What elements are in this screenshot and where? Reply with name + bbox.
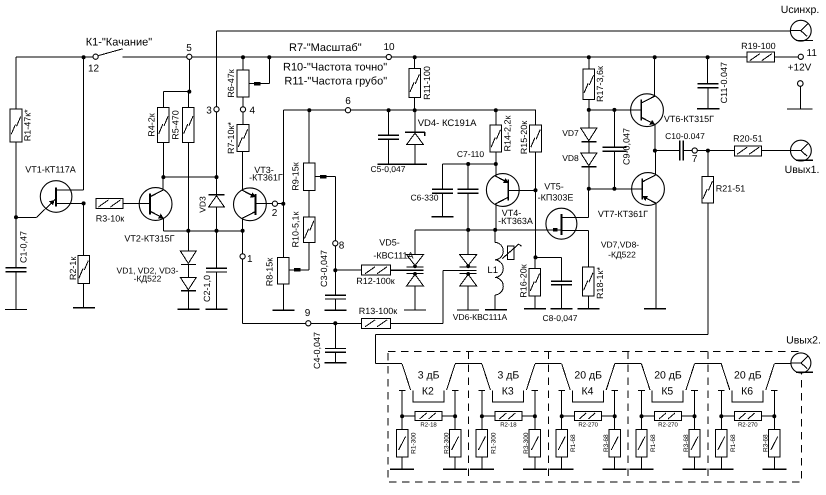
svg-text:4: 4 — [250, 105, 256, 116]
svg-text:R2-270: R2-270 — [658, 422, 678, 429]
ground VT7 — [644, 308, 666, 310]
label VD7 VD8 — [601, 240, 639, 260]
svg-text:R1-68: R1-68 — [730, 434, 737, 452]
wire emitter rail to C2 — [216, 231, 218, 268]
svg-text:VD6-КВС111А: VD6-КВС111А — [453, 312, 508, 322]
svg-text:R15-20к: R15-20к — [519, 121, 529, 155]
transistor VT5 (КП303Е FET) — [538, 182, 589, 240]
wire VT7 emitter down — [655, 203, 657, 309]
svg-text:3 дБ: 3 дБ — [498, 369, 520, 381]
svg-text:R1-300: R1-300 — [490, 432, 497, 454]
node 6 — [345, 96, 351, 113]
resistor R11 — [409, 55, 432, 110]
wire +12V bus (node 5 to node 11) — [16, 56, 798, 58]
wire node8 to C3 — [333, 246, 337, 295]
resistor R13 — [359, 306, 398, 329]
resistor R2-18 of К2 — [400, 412, 457, 429]
svg-text:L1: L1 — [487, 265, 498, 276]
svg-text:2: 2 — [272, 208, 278, 219]
capacitor C5 — [371, 110, 406, 174]
wire node9 to R13 — [311, 321, 362, 325]
resistor R1-68 of К5 — [636, 416, 657, 469]
wire into relay К5 — [615, 362, 642, 364]
svg-text:-КВС111А: -КВС111А — [373, 250, 413, 260]
wire VT6 collector up — [653, 55, 657, 96]
wire R8 wiper — [289, 268, 309, 271]
svg-text:R11-100: R11-100 — [422, 66, 432, 100]
resistor R18 — [583, 267, 606, 299]
wire R21 down and left — [376, 203, 708, 334]
label VD1 VD2 VD3 — [117, 265, 179, 283]
resistor R1 — [10, 57, 33, 142]
ground R1-300 К3 — [470, 468, 494, 470]
svg-text:9: 9 — [305, 308, 311, 319]
svg-text:VT7-КТ361Г: VT7-КТ361Г — [598, 209, 648, 219]
relay contact К6 — [718, 364, 778, 416]
svg-text:R1-68: R1-68 — [570, 434, 577, 452]
diode VD2 — [180, 264, 196, 291]
connector Uвых1 — [785, 140, 820, 176]
wire VT3 base to node 2 — [256, 201, 286, 219]
wire node5 down to R4/R5 — [163, 59, 191, 93]
capacitor C8 — [543, 281, 578, 323]
ground C5 VD4 — [377, 163, 427, 165]
wire node 1 down to node 9 rail — [243, 259, 306, 323]
capacitor C2 — [202, 268, 227, 309]
svg-text:R1-300: R1-300 — [411, 432, 418, 454]
ground VD6 — [457, 309, 479, 311]
transistor VT2 (КТ315Г) — [124, 188, 174, 244]
svg-text:R2-18: R2-18 — [500, 422, 517, 429]
ground C8 — [550, 308, 572, 310]
wire R18 to ground — [587, 296, 589, 309]
wire varicap rail — [415, 228, 562, 232]
ground C6 — [431, 216, 453, 218]
svg-text:3 дБ: 3 дБ — [418, 369, 440, 381]
svg-text:R10-5,1к: R10-5,1к — [291, 211, 301, 247]
wire VT5 source down to R18 — [587, 230, 589, 267]
capacitor C9 — [602, 110, 631, 189]
svg-text:R12-100к: R12-100к — [356, 276, 395, 286]
svg-text:R11-"Частота грубо": R11-"Частота грубо" — [284, 76, 387, 88]
wire R10 to R8 wiper — [308, 242, 310, 270]
svg-text:VT6-КТ315Г: VT6-КТ315Г — [664, 114, 714, 124]
wire R9 wiper — [315, 175, 335, 241]
svg-text:R4-2к: R4-2к — [147, 113, 157, 137]
wire collector line (R4 bottom to VD3 column) — [161, 175, 218, 179]
svg-text:R20-51: R20-51 — [733, 134, 763, 144]
transistor VT1 (КТ117А unijunction) — [16, 165, 84, 218]
relay contact К4 — [558, 364, 618, 416]
wire VD8 down — [588, 167, 590, 189]
varicap VD6 — [443, 230, 477, 310]
transistor VT4 (КТ363А) — [486, 174, 532, 226]
wire R6 to R7 (node 4) — [240, 97, 255, 124]
svg-text:R3-68: R3-68 — [683, 434, 690, 452]
svg-text:-КП303Е: -КП303Е — [538, 193, 574, 203]
svg-text:VD7: VD7 — [562, 128, 579, 138]
relay contact К2 — [399, 364, 459, 416]
node 11 — [798, 48, 817, 59]
transistor VT3 (КТ361Г) — [234, 165, 283, 221]
node 10 — [383, 42, 395, 60]
resistor R5 — [171, 92, 194, 143]
wire into relay К4 — [535, 362, 562, 364]
resistor R3-300 of К2 — [443, 416, 460, 469]
potentiometer R6 — [226, 55, 249, 98]
wire attenuator input — [376, 334, 403, 363]
svg-text:К2: К2 — [422, 386, 434, 398]
wire VT1 base1 down to R2 — [82, 201, 86, 255]
ground R3-68 К6 — [762, 468, 786, 470]
ground diode chain — [177, 308, 199, 310]
svg-text:R21-51: R21-51 — [716, 183, 746, 193]
svg-text:R1-47к*: R1-47к* — [23, 109, 33, 141]
ground R1-300 К2 — [390, 468, 414, 470]
svg-text:C9-0,047: C9-0,047 — [622, 128, 632, 165]
ground C11 — [697, 108, 719, 110]
wire VT4 collector down — [495, 204, 497, 230]
ground R3-300 К2 — [443, 468, 467, 470]
svg-text:R8-15к: R8-15к — [265, 258, 275, 287]
label R10 частота точно — [283, 62, 387, 74]
wire VT6 emitter down — [653, 124, 657, 152]
ground R3-300 К3 — [523, 468, 547, 470]
ground L1 — [485, 309, 507, 311]
ground R1-68 К4 — [550, 468, 574, 470]
label +12V — [788, 63, 812, 74]
wire emitter rail — [164, 229, 245, 233]
svg-text:VD7,VD8-: VD7,VD8- — [601, 240, 639, 250]
switch K1 contact (node 12) — [88, 54, 100, 74]
ground R1-68 К6 — [709, 468, 733, 470]
diode VD7 — [562, 110, 597, 142]
svg-text:C6-330: C6-330 — [411, 192, 439, 202]
ground R18 — [577, 308, 599, 310]
svg-text:C7-110: C7-110 — [457, 149, 485, 159]
svg-text:10: 10 — [383, 42, 395, 53]
svg-text:C4-0,047: C4-0,047 — [312, 332, 322, 369]
svg-text:VD5-: VD5- — [379, 237, 400, 247]
svg-text:12: 12 — [88, 64, 100, 75]
resistor R17 — [583, 55, 605, 110]
svg-text:VD3: VD3 — [198, 196, 208, 213]
resistor R16 — [519, 257, 541, 308]
svg-text:-КД522: -КД522 — [134, 273, 162, 283]
svg-text:C8-0,047: C8-0,047 — [543, 313, 578, 323]
svg-text:C2-1,0: C2-1,0 — [202, 275, 212, 302]
svg-text:R2-270: R2-270 — [578, 422, 598, 429]
svg-text:20 дБ: 20 дБ — [734, 369, 762, 381]
potentiometer R9 — [291, 110, 315, 191]
svg-text:R19-100: R19-100 — [741, 41, 776, 51]
svg-text:7: 7 — [692, 154, 698, 165]
wire sync column top — [216, 31, 218, 195]
resistor R20 — [733, 134, 763, 156]
wire VT4 base — [508, 188, 537, 192]
wire R8 to ground — [282, 284, 284, 310]
wire frequency bus — [283, 108, 536, 112]
capacitor C3 — [319, 250, 346, 310]
wire VT2 collector — [162, 177, 164, 190]
ground R3-68 К5 — [683, 468, 707, 470]
svg-text:R17-3,6к: R17-3,6к — [595, 66, 605, 102]
svg-text:R3-300: R3-300 — [523, 432, 530, 454]
wire R7 to VT3 emitter — [242, 152, 244, 190]
potentiometer R8 — [265, 257, 289, 286]
wire R6 wiper — [249, 55, 271, 85]
node 9 — [305, 308, 311, 326]
node 5 — [186, 43, 192, 59]
wire VT3 collector down — [242, 218, 244, 253]
wire R13 to VD6 — [391, 270, 443, 323]
svg-text:VT1-КТ117А: VT1-КТ117А — [25, 165, 76, 175]
resistor R2-270 of К4 — [560, 412, 617, 429]
wire VT1 base2 up — [82, 55, 86, 190]
wire R1 to C1 — [14, 142, 18, 268]
svg-text:R5-470: R5-470 — [171, 110, 181, 140]
relay contact К3 — [479, 364, 539, 416]
svg-text:1: 1 — [247, 254, 253, 265]
wire upper base rail — [587, 108, 642, 112]
ground R8 — [272, 309, 294, 311]
ground C1 — [5, 309, 27, 311]
svg-text:R10-"Частота точно": R10-"Частота точно" — [283, 62, 387, 74]
svg-text:К1-"Качание": К1-"Качание" — [86, 37, 153, 49]
wire К6 to Uвых2 — [774, 362, 801, 364]
wire bus to node2 junction — [282, 110, 284, 257]
svg-text:К6: К6 — [741, 386, 753, 398]
label R7 Масштаб — [289, 42, 362, 54]
svg-text:Uсинхр.: Uсинхр. — [781, 4, 820, 16]
svg-text:VT2-КТ315Г: VT2-КТ315Г — [124, 233, 174, 243]
resistor R1-68 of К6 — [716, 416, 737, 469]
wire VD3 to emitter rail — [216, 208, 218, 231]
resistor R15 — [519, 110, 541, 190]
svg-text:Uвых2.: Uвых2. — [786, 335, 821, 347]
svg-text:11: 11 — [807, 48, 818, 59]
switch K1 blade — [98, 49, 122, 56]
diode VD3 — [198, 195, 225, 213]
wire VD2 to ground — [187, 291, 189, 309]
svg-text:C5-0,047: C5-0,047 — [371, 164, 406, 174]
resistor R3-68 of К4 — [603, 416, 620, 469]
wire R2 to ground — [83, 284, 85, 308]
wire source node to C8 — [536, 257, 562, 281]
wire VT2 emitter — [163, 218, 165, 231]
resistor R1-68 of К4 — [556, 416, 577, 469]
connector Uсинхр — [781, 4, 820, 41]
svg-text:+12V: +12V — [788, 63, 812, 74]
label K1 — [86, 37, 153, 49]
wire lower base rail — [587, 187, 643, 191]
ground R2 — [73, 307, 95, 309]
svg-text:R13-100к: R13-100к — [359, 306, 398, 316]
svg-text:VD4- КС191А: VD4- КС191А — [418, 118, 477, 129]
resistor R7 — [226, 122, 249, 154]
svg-text:R9-15к: R9-15к — [291, 162, 301, 191]
ground R3-68 К4 — [603, 468, 627, 470]
svg-text:C3-0,047: C3-0,047 — [319, 250, 329, 287]
ground C3 — [325, 309, 347, 311]
ground C4 — [325, 362, 347, 364]
label R11 частота грубо — [284, 76, 387, 88]
node 8 — [333, 241, 345, 252]
node 7 — [692, 148, 698, 165]
svg-text:R6-47к: R6-47к — [226, 69, 236, 98]
resistor R4 — [147, 92, 170, 143]
resistor R2-270 of К6 — [719, 412, 776, 429]
svg-text:C1-0,47: C1-0,47 — [19, 231, 29, 263]
svg-text:VT5-: VT5- — [544, 182, 564, 192]
ground R16 — [524, 308, 546, 310]
wire VT4 emitter up — [495, 164, 497, 176]
svg-text:-КД522: -КД522 — [608, 249, 636, 259]
inductor L1 — [487, 230, 521, 310]
svg-text:R2-270: R2-270 — [738, 422, 758, 429]
wire into relay К3 — [455, 362, 482, 364]
diode VD8 — [562, 142, 597, 167]
resistor R21 — [702, 151, 745, 203]
svg-text:8: 8 — [339, 241, 345, 252]
svg-text:C10-0.047: C10-0.047 — [665, 131, 705, 141]
svg-text:-КТ363А: -КТ363А — [498, 216, 533, 226]
relay contact К5 — [638, 364, 698, 416]
resistor R1-300 of К3 — [476, 416, 497, 469]
svg-text:C11-0.047: C11-0.047 — [719, 62, 729, 103]
resistor R3-68 of К5 — [683, 416, 700, 469]
diode VD1 — [180, 231, 196, 265]
resistor R2-18 of К3 — [480, 412, 537, 429]
wire R20 to connector — [762, 150, 801, 152]
resistor R2-270 of К5 — [640, 412, 697, 429]
svg-text:VD8: VD8 — [562, 153, 579, 163]
svg-text:R7-10к*: R7-10к* — [226, 122, 236, 154]
transistor VT7 (КТ361Г) — [598, 173, 664, 220]
resistor R10 — [291, 190, 315, 247]
capacitor C11 — [698, 55, 730, 109]
svg-text:R16-20к: R16-20к — [519, 264, 529, 298]
svg-text:-КТ361Г: -КТ361Г — [249, 172, 283, 182]
label VD6 — [453, 312, 508, 322]
svg-text:К3: К3 — [502, 386, 514, 398]
resistor R3-68 of К6 — [763, 416, 780, 469]
ground R1-68 К5 — [630, 468, 654, 470]
svg-text:R3-300: R3-300 — [443, 432, 450, 454]
svg-text:6: 6 — [345, 96, 351, 107]
svg-text:R2-1к: R2-1к — [68, 257, 78, 281]
svg-text:R7-"Масштаб": R7-"Масштаб" — [289, 42, 362, 54]
capacitor C1 — [6, 231, 29, 310]
svg-text:К5: К5 — [661, 386, 673, 398]
connector Uвых2 — [786, 335, 821, 373]
resistor R2 — [68, 255, 89, 283]
wire R4 to collector line — [162, 143, 164, 178]
varicap VD5 — [373, 230, 423, 310]
resistor R1-300 of К2 — [396, 416, 417, 469]
attenuator enclosure (dashed) — [388, 352, 802, 483]
svg-text:R18-1к*: R18-1к* — [595, 267, 605, 299]
wire R15 column down to R16 — [534, 190, 538, 259]
capacitor C7 — [457, 149, 485, 230]
wire R3 right to VT2 base — [123, 202, 150, 204]
capacitor C6 — [411, 164, 453, 217]
transistor VT6 (КТ315Г) — [631, 94, 715, 127]
resistor R3-300 of К3 — [523, 416, 540, 469]
node 3 — [206, 105, 219, 116]
resistor R19 — [741, 41, 776, 62]
svg-text:3: 3 — [206, 105, 212, 116]
wire into relay К6 — [695, 362, 722, 364]
wire VT7 collector up — [655, 151, 657, 176]
wire VT5 drain up — [587, 189, 589, 218]
svg-text:R14-2,2к: R14-2,2к — [503, 115, 513, 151]
svg-text:К4: К4 — [582, 386, 594, 398]
wire into relay К2 — [0, 0, 1, 1]
resistor R14 — [490, 110, 513, 164]
ground VD5 — [404, 309, 426, 311]
svg-text:R2-18: R2-18 — [420, 422, 437, 429]
wire node7 to R20 — [697, 149, 734, 153]
svg-text:5: 5 — [186, 43, 192, 54]
svg-text:R3-68: R3-68 — [763, 434, 770, 452]
wire R5 down to VD1 — [187, 143, 189, 231]
svg-text:R1-68: R1-68 — [650, 434, 657, 452]
ground C2 — [206, 308, 228, 310]
wire sync bus (top, to Uсинхр) — [217, 30, 801, 32]
capacitor C4 — [312, 323, 346, 369]
svg-text:20 дБ: 20 дБ — [574, 369, 602, 381]
svg-text:20 дБ: 20 дБ — [654, 369, 682, 381]
wire C6/C7 top rail — [442, 162, 498, 166]
capacitor C10 — [655, 131, 705, 161]
resistor R3 — [96, 198, 125, 223]
svg-text:R3-68: R3-68 — [603, 434, 610, 452]
svg-text:Uвых1.: Uвых1. — [785, 164, 820, 176]
terminal +12V — [787, 81, 813, 109]
zener VD4 — [405, 110, 477, 164]
svg-text:R3-10к: R3-10к — [96, 214, 125, 224]
resistor R12 — [335, 265, 423, 286]
node 1 — [240, 254, 253, 265]
